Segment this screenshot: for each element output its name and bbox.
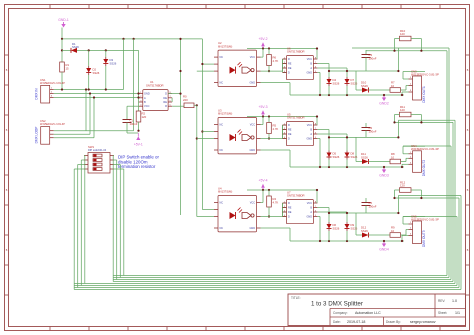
net wire ch3 <box>329 212 398 214</box>
svg-text:10: 10 <box>391 84 395 88</box>
wire opto VCC to rail ch1 <box>261 56 264 58</box>
wire pin1 loop ch3 <box>403 216 425 218</box>
svg-text:GND: GND <box>306 138 312 141</box>
node j8 <box>196 104 198 106</box>
series diode D10 <box>356 89 362 91</box>
power flag +5V-1 <box>136 137 140 141</box>
wire loop up a <box>85 90 87 131</box>
pull-up resistor R6 <box>268 49 270 55</box>
gnd rail ch1 <box>290 94 404 96</box>
svg-text:GND: GND <box>144 92 150 96</box>
series resistor R7 <box>390 88 401 93</box>
LED inside U4 <box>230 212 236 219</box>
wire xcvr B to diode ch3 <box>317 207 329 209</box>
gnd flag GND3 <box>383 166 385 169</box>
svg-text:4.7K: 4.7K <box>273 127 279 131</box>
svg-text:SS26: SS26 <box>351 82 358 86</box>
svg-text:SS26: SS26 <box>333 82 340 86</box>
svg-text:DE: DE <box>288 133 292 136</box>
svg-text:GND-1: GND-1 <box>58 18 69 22</box>
series resistor R9 <box>390 233 401 238</box>
TVS diode D9 <box>346 222 348 224</box>
svg-text:120: 120 <box>400 184 405 188</box>
resistor R1 <box>60 62 65 72</box>
wire data bus B <box>201 39 203 210</box>
wire gnd branch down <box>61 39 63 62</box>
svg-text:100nF: 100nF <box>369 130 377 134</box>
svg-text:RE: RE <box>288 129 292 132</box>
wire GND-1 to rail <box>61 28 63 39</box>
svg-text:Automation LLC: Automation LLC <box>355 311 381 315</box>
wire to pin2 ch1 <box>405 86 407 91</box>
svg-text:SS26: SS26 <box>351 155 358 159</box>
net wire ch1 <box>329 70 398 72</box>
svg-text:+5V-2: +5V-2 <box>259 37 268 41</box>
series resistor R8 <box>390 159 401 164</box>
svg-text:4.7K: 4.7K <box>273 59 279 63</box>
svg-text:DMX OUT2: DMX OUT2 <box>422 160 426 177</box>
wire xcvr GND ch3 <box>317 216 320 218</box>
svg-text:120: 120 <box>142 115 147 119</box>
svg-text:DMX IN: DMX IN <box>35 88 39 100</box>
diode D3 <box>105 50 107 57</box>
wire pin3 gnd ch2 <box>402 163 409 165</box>
TVS diode D6 <box>328 222 330 224</box>
LED inside U3 <box>230 134 236 141</box>
svg-text:6N137S(M): 6N137S(M) <box>218 112 232 116</box>
wire opto out ch2 <box>261 138 283 140</box>
wire CN2 pin3 row <box>54 137 94 139</box>
node j1 <box>61 38 63 40</box>
svg-text:RE: RE <box>288 207 292 210</box>
wire U1 D to bus <box>168 93 180 95</box>
wire pin1 loop ch2 <box>403 145 425 147</box>
svg-text:SS26: SS26 <box>361 229 368 233</box>
wire opto VCC to rail ch2 <box>261 124 264 126</box>
node j2 <box>122 38 124 40</box>
svg-text:B: B <box>144 100 146 104</box>
svg-text:SN75176BDR: SN75176BDR <box>287 116 305 120</box>
svg-text:SS26: SS26 <box>361 84 368 88</box>
wire LED cathode feed ch3 <box>197 216 214 218</box>
svg-text:TITLE:: TITLE: <box>291 296 301 300</box>
wire down to CN1 shield <box>123 39 125 90</box>
wire xcvr A to diode ch3 <box>317 211 347 213</box>
wire down to CN2 <box>133 39 135 131</box>
svg-text:4.7K: 4.7K <box>273 201 279 205</box>
svg-text:SS26: SS26 <box>333 227 340 231</box>
gnd rail ch3 <box>290 240 404 242</box>
svg-text:SS26: SS26 <box>351 227 358 231</box>
TVS diode D7 <box>346 77 348 79</box>
diode D2 <box>88 50 90 66</box>
svg-text:Company:: Company: <box>333 311 348 315</box>
resistor R2 <box>136 111 141 122</box>
wire top gnd rail <box>62 38 202 40</box>
svg-text:120: 120 <box>400 108 405 112</box>
svg-text:220: 220 <box>183 98 188 102</box>
svg-text:NC: NC <box>220 124 224 127</box>
TVS diode D5 <box>328 151 330 153</box>
wire pin1 loop ch1 <box>403 71 425 73</box>
bus branch wires ch1 <box>394 39 396 51</box>
svg-text:termination resistor: termination resistor <box>118 164 156 169</box>
wire LED anode feed ch2 <box>202 131 214 133</box>
svg-text:Drawn By:: Drawn By: <box>386 320 401 324</box>
svg-text:+5V-1: +5V-1 <box>134 143 143 147</box>
svg-text:6N137S(M): 6N137S(M) <box>218 44 232 48</box>
wire xcvr GND ch1 <box>317 72 320 74</box>
wire CN2 pin2 row <box>54 133 90 135</box>
svg-text:RE: RE <box>163 100 167 104</box>
svg-text:SS26: SS26 <box>110 62 117 66</box>
wire LED anode feed ch1 <box>202 63 214 65</box>
detector inside U4 <box>242 213 251 219</box>
wire CN1 pin3 row <box>54 97 139 99</box>
wire LED cathode feed ch2 <box>197 138 214 140</box>
wire R2 bottom <box>138 122 140 131</box>
svg-text:GND3: GND3 <box>379 174 389 178</box>
wire D1 row <box>89 49 139 51</box>
wire loop up c <box>93 98 95 138</box>
svg-text:R: R <box>165 104 167 108</box>
wire CN1 pin2 row <box>54 93 139 95</box>
node j4 <box>61 49 63 51</box>
svg-text:D: D <box>288 216 290 219</box>
svg-text:15: 15 <box>66 67 70 71</box>
svg-text:100nF: 100nF <box>130 122 138 126</box>
capacitor C4 <box>365 123 367 128</box>
svg-text:1.0: 1.0 <box>452 299 457 303</box>
gnd flag GND2 <box>383 94 385 97</box>
TVS diode D4 <box>328 77 330 79</box>
pull-up resistor R5 <box>268 117 270 123</box>
wire enable bus <box>180 39 182 215</box>
wire to pin2 ch3 <box>405 230 407 236</box>
detector inside U3 <box>242 135 251 141</box>
svg-text:VCC: VCC <box>250 56 255 59</box>
wire to pin2 ch2 <box>405 158 407 161</box>
svg-text:VCC: VCC <box>144 104 150 108</box>
svg-text:+5V-4: +5V-4 <box>259 179 268 183</box>
detector inside U2 <box>242 67 251 73</box>
svg-text:DE: DE <box>288 211 292 214</box>
svg-text:SS26: SS26 <box>361 155 368 159</box>
svg-text:WJ15EDGVC-3.81-3P: WJ15EDGVC-3.81-3P <box>40 82 65 85</box>
svg-text:VCC: VCC <box>307 202 312 205</box>
wire +5 feed down <box>138 50 140 111</box>
svg-text:GND: GND <box>249 149 255 152</box>
capacitor C1 <box>127 105 139 107</box>
svg-text:VCC: VCC <box>307 124 312 127</box>
svg-text:DIP switch01-04: DIP switch01-04 <box>88 149 107 152</box>
svg-text:2019-07-18: 2019-07-18 <box>347 320 365 324</box>
svg-text:D: D <box>288 72 290 75</box>
svg-text:Date:: Date: <box>333 320 341 324</box>
wire data bus A <box>196 105 198 216</box>
svg-text:SN75176BDR: SN75176BDR <box>287 194 305 198</box>
diode D1 <box>62 49 71 51</box>
wire xcvr GND ch2 <box>317 138 320 140</box>
series diode D12 <box>356 234 362 236</box>
wire opto out ch1 <box>261 70 283 72</box>
node j6 <box>105 49 107 51</box>
svg-text:VCC: VCC <box>250 202 255 205</box>
svg-text:RE: RE <box>288 63 292 66</box>
svg-text:DE: DE <box>288 67 292 70</box>
svg-text:120: 120 <box>400 32 405 36</box>
svg-text:D: D <box>288 138 290 141</box>
wire U1 DE RE tie <box>171 98 173 102</box>
svg-text:R: R <box>288 58 290 61</box>
svg-text:Sheet:: Sheet: <box>438 311 447 315</box>
svg-text:DE: DE <box>163 96 167 100</box>
wire pin3 gnd ch3 <box>402 235 409 237</box>
svg-text:VCC: VCC <box>250 124 255 127</box>
wire term bus <box>84 156 86 284</box>
svg-text:NC: NC <box>220 149 224 152</box>
wire opto out ch3 <box>261 216 283 218</box>
gnd flag GND4 <box>383 240 385 243</box>
node j3 <box>133 38 135 40</box>
wire opto GND ch1 <box>261 82 291 84</box>
svg-text:GND2: GND2 <box>379 102 389 106</box>
svg-text:SS26: SS26 <box>93 71 100 75</box>
wire xcvr B to diode ch2 <box>317 129 329 131</box>
wire LED anode feed ch3 <box>202 209 214 211</box>
svg-text:1/1: 1/1 <box>455 311 460 315</box>
node j5 <box>88 49 90 51</box>
svg-text:10: 10 <box>391 155 395 159</box>
wire loop up b <box>89 94 91 135</box>
wire opto VCC to rail ch3 <box>261 202 264 204</box>
svg-text:SS26: SS26 <box>333 155 340 159</box>
gnd rail ch2 <box>290 166 404 168</box>
TVS diode D8 <box>346 151 348 153</box>
svg-text:A: A <box>144 96 146 100</box>
wire xcvr A to diode ch1 <box>317 67 347 69</box>
wire pin3 gnd ch1 <box>402 91 409 93</box>
net wire ch2 <box>329 136 398 138</box>
wire xcvr VCC ch1 <box>316 49 318 60</box>
svg-text:GND4: GND4 <box>379 248 389 252</box>
wire LED cathode feed ch1 <box>197 70 214 72</box>
wire xcvr A to diode ch2 <box>317 133 347 135</box>
pull-up resistor R4 <box>268 190 270 196</box>
svg-text:DMX LOOP: DMX LOOP <box>35 127 39 144</box>
svg-text:10: 10 <box>391 229 395 233</box>
svg-text:1 to 3 DMX Splitter: 1 to 3 DMX Splitter <box>311 301 363 308</box>
bus branch wires ch2 <box>394 115 396 123</box>
title block <box>288 294 466 326</box>
svg-text:NC: NC <box>220 227 224 230</box>
LED inside U2 <box>230 67 236 74</box>
series diode D11 <box>356 161 362 163</box>
wire opto GND ch2 <box>261 149 291 151</box>
svg-text:100nF: 100nF <box>369 57 377 61</box>
wire xcvr B to diode ch1 <box>317 63 329 65</box>
resistor R0 <box>172 105 184 107</box>
svg-text:VCC: VCC <box>307 58 312 61</box>
svg-text:100nF: 100nF <box>369 205 377 209</box>
svg-text:SS26: SS26 <box>72 45 79 49</box>
svg-text:GND: GND <box>249 82 255 85</box>
svg-text:NC: NC <box>220 202 224 205</box>
wire xcvr VCC ch3 <box>316 190 318 203</box>
svg-text:GND: GND <box>249 227 255 230</box>
capacitor C3 <box>365 50 367 55</box>
svg-text:R: R <box>288 202 290 205</box>
svg-text:GND: GND <box>306 72 312 75</box>
wire xcvr VCC ch2 <box>316 117 318 126</box>
svg-text:NC: NC <box>220 56 224 59</box>
capacitor C5 <box>365 198 367 203</box>
svg-text:sergey.romanov: sergey.romanov <box>410 320 436 324</box>
bus branch wires ch3 <box>394 190 396 198</box>
svg-text:WJ15EDGVC-3.81-3P: WJ15EDGVC-3.81-3P <box>40 123 65 126</box>
svg-text:DMX OUT3: DMX OUT3 <box>422 230 426 247</box>
svg-text:NC: NC <box>220 82 224 85</box>
svg-text:SN75176BDR: SN75176BDR <box>146 84 164 88</box>
wire CN1 pin1 row <box>54 89 124 91</box>
svg-text:REV:: REV: <box>438 299 445 303</box>
svg-text:GND: GND <box>306 216 312 219</box>
wire opto GND ch3 <box>261 227 291 229</box>
svg-text:D: D <box>165 92 167 96</box>
svg-text:6N137S(M): 6N137S(M) <box>218 190 232 194</box>
svg-text:SN75176BDR: SN75176BDR <box>287 50 305 54</box>
svg-text:DMX OUT1: DMX OUT1 <box>422 86 426 103</box>
node j7 <box>61 88 63 90</box>
wire CN2 pin1 row <box>54 130 134 132</box>
svg-text:R: R <box>288 124 290 127</box>
svg-text:+5V-3: +5V-3 <box>259 105 268 109</box>
